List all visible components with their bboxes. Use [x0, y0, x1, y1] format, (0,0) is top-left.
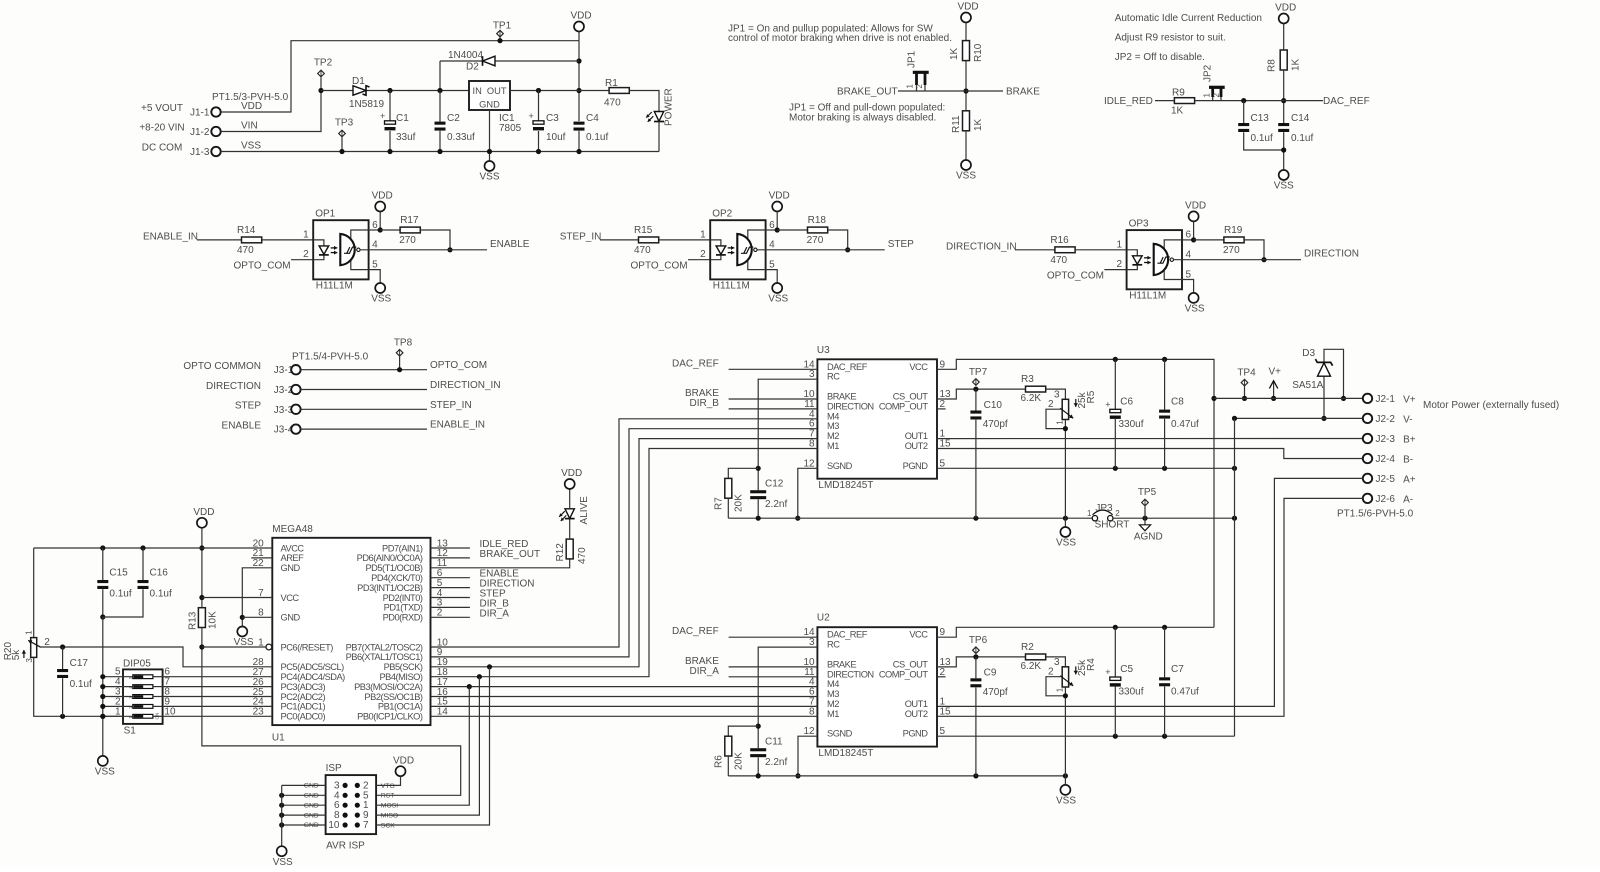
svg-text:PC4(ADC4/SDA): PC4(ADC4/SDA) — [281, 672, 346, 682]
svg-text:C9: C9 — [984, 668, 997, 679]
wire U2 VCC to V+ rail — [937, 627, 1214, 637]
capacitor C11 2.2nf — [750, 748, 766, 751]
resistor R18 270 — [777, 229, 807, 231]
wire R8 to DAC_REF node — [1283, 70, 1285, 124]
svg-text:R1: R1 — [605, 78, 618, 89]
svg-text:JP2 = Off to disable.: JP2 = Off to disable. — [1115, 52, 1205, 63]
capacitor C15 0.1uf — [102, 548, 104, 580]
svg-text:IN: IN — [473, 86, 482, 96]
wire IC1 GND to VSS — [489, 110, 491, 161]
svg-text:PC2(ADC2): PC2(ADC2) — [281, 692, 326, 702]
svg-text:OPTO COMMON: OPTO COMMON — [183, 361, 261, 372]
wire DIRECTION_IN — [301, 389, 427, 391]
svg-text:15: 15 — [940, 439, 952, 450]
svg-text:D2: D2 — [466, 62, 479, 73]
wire VDD top-left rail — [34, 547, 202, 549]
resistor R17 270 — [380, 229, 400, 231]
svg-text:C8: C8 — [1171, 397, 1184, 408]
svg-text:1: 1 — [1117, 239, 1123, 250]
svg-text:6.2K: 6.2K — [1021, 393, 1042, 404]
svg-text:VSS: VSS — [1274, 181, 1294, 192]
wire ground vertical left — [102, 617, 104, 756]
svg-text:J1-2: J1-2 — [190, 127, 210, 138]
svg-text:TP3: TP3 — [335, 118, 354, 129]
svg-text:2: 2 — [940, 399, 946, 410]
wire OP3 pin6 — [1182, 239, 1194, 241]
wire STEP_IN — [301, 408, 427, 410]
svg-text:5: 5 — [1186, 269, 1192, 280]
svg-text:J2-4: J2-4 — [1376, 454, 1396, 465]
svg-text:10uf: 10uf — [546, 132, 566, 143]
power symbol VSS ISP — [277, 846, 287, 856]
wire VCC pin7 — [202, 597, 272, 599]
resistor R3 6.2K — [1026, 386, 1046, 392]
svg-text:PC1(ADC1): PC1(ADC1) — [281, 702, 326, 712]
regulator IC1 7805 — [469, 81, 510, 110]
svg-text:OPTO_COM: OPTO_COM — [631, 261, 688, 272]
wire J1-1 VDD to top rail — [221, 41, 579, 112]
power symbol V+ — [1273, 382, 1275, 399]
resistor R13 10K — [198, 608, 205, 628]
svg-text:4: 4 — [1186, 250, 1192, 261]
svg-text:M2: M2 — [827, 431, 839, 441]
svg-text:R5: R5 — [1086, 390, 1097, 403]
svg-text:TP8: TP8 — [394, 337, 413, 348]
capacitor C2 0.33uf — [439, 91, 441, 122]
svg-text:M3: M3 — [827, 689, 839, 699]
svg-text:7805: 7805 — [499, 123, 522, 134]
wire VDD vertical to D2 and OUT — [578, 41, 580, 121]
svg-text:DAC_REF: DAC_REF — [827, 630, 868, 640]
svg-text:5: 5 — [940, 458, 946, 469]
svg-text:DC COM: DC COM — [142, 143, 183, 154]
svg-text:1: 1 — [700, 229, 706, 240]
svg-text:M4: M4 — [827, 679, 839, 689]
wire BRAKE to U2 pin10 — [729, 666, 818, 668]
jumper JP1 — [915, 72, 918, 86]
wire U3 M2 to MCU PB5 — [431, 439, 818, 667]
svg-text:10: 10 — [328, 820, 340, 831]
connector J2 pin J2-4 — [1363, 454, 1372, 463]
svg-text:470: 470 — [634, 245, 651, 256]
svg-text:DAC_REF: DAC_REF — [672, 626, 719, 637]
svg-text:VSS: VSS — [1056, 795, 1076, 806]
svg-text:OUT1: OUT1 — [905, 431, 928, 441]
svg-text:VTG: VTG — [381, 783, 395, 790]
wire AREF pin21 stub — [251, 557, 272, 559]
svg-text:0.47uf: 0.47uf — [1171, 419, 1199, 430]
svg-text:DIRECTION_IN: DIRECTION_IN — [430, 380, 501, 391]
capacitor C13 0.1uf — [1243, 101, 1245, 123]
svg-text:H11L1M: H11L1M — [713, 281, 750, 292]
svg-text:ALIVE: ALIVE — [579, 496, 590, 525]
power symbol VSS U3 — [1064, 518, 1066, 527]
svg-text:ENABLE: ENABLE — [490, 239, 530, 250]
svg-text:PB3(MOSI/OC2A): PB3(MOSI/OC2A) — [354, 682, 423, 692]
diode D2 1N4004 — [440, 60, 579, 62]
wire GND pin8 — [242, 616, 272, 618]
power symbol VSS JP2 — [1279, 170, 1289, 180]
jumper JP2 — [1211, 87, 1214, 98]
svg-text:CS_OUT: CS_OUT — [893, 659, 929, 669]
power symbol VSS OP2 — [772, 283, 782, 293]
driver U3 LMD18245T — [817, 359, 937, 478]
svg-text:JP2: JP2 — [1203, 64, 1214, 82]
svg-text:R17: R17 — [400, 215, 419, 226]
power symbol VDD ALIVE — [565, 479, 575, 489]
wire R2 to R4 — [1046, 657, 1066, 667]
wire DIP row 1 — [103, 715, 133, 717]
test point TP3 — [339, 130, 346, 137]
wire DIP row 4 — [103, 686, 133, 688]
wire OP1 pin4 output ENABLE — [360, 249, 487, 251]
wire U2 M1 from MCU PB0 — [431, 715, 818, 717]
ground symbol AGND — [1139, 525, 1150, 531]
capacitor C14 0.1uf — [1278, 123, 1289, 126]
wire U3 PGND — [937, 467, 1235, 469]
svg-text:PD2(INT0): PD2(INT0) — [383, 593, 423, 603]
svg-text:0.1uf: 0.1uf — [1251, 133, 1273, 144]
svg-text:OUT2: OUT2 — [905, 709, 928, 719]
svg-text:20K: 20K — [734, 752, 745, 770]
svg-text:LMD18245T: LMD18245T — [818, 748, 873, 759]
svg-text:R11: R11 — [951, 115, 962, 133]
svg-text:A+: A+ — [1403, 474, 1416, 485]
svg-text:C5: C5 — [1120, 664, 1133, 675]
power symbol VDD MCU — [197, 518, 207, 528]
svg-text:SGND: SGND — [827, 729, 853, 739]
svg-text:1: 1 — [906, 84, 915, 89]
wire U3 analog ground rail — [728, 517, 1092, 519]
svg-text:GND: GND — [281, 613, 301, 623]
svg-text:PGND: PGND — [903, 461, 929, 471]
connector J2 pin J2-3 — [1363, 434, 1372, 443]
svg-text:C10: C10 — [984, 400, 1003, 411]
svg-text:470: 470 — [1050, 255, 1067, 266]
svg-text:J2-3: J2-3 — [1376, 434, 1396, 445]
wire DAC_REF to U3 pin14 — [729, 368, 818, 370]
svg-text:2: 2 — [940, 667, 946, 678]
svg-text:BRAKE_OUT: BRAKE_OUT — [480, 549, 541, 560]
svg-text:DIP05: DIP05 — [123, 658, 151, 669]
svg-text:R12: R12 — [555, 543, 566, 562]
wire OP3 pin4 output DIRECTION — [1174, 259, 1302, 261]
svg-text:C13: C13 — [1251, 113, 1270, 124]
svg-text:470: 470 — [604, 98, 621, 109]
test point TP1 — [499, 37, 501, 41]
svg-text:H11L1M: H11L1M — [1129, 291, 1166, 302]
svg-text:6.2K: 6.2K — [1021, 661, 1042, 672]
svg-text:9: 9 — [940, 627, 946, 638]
wire U3 COMP_OUT stub — [937, 408, 946, 410]
svg-text:DIR_A: DIR_A — [480, 608, 510, 619]
svg-text:B+: B+ — [1403, 435, 1416, 446]
svg-text:STEP: STEP — [235, 401, 261, 412]
svg-text:3: 3 — [809, 637, 815, 648]
svg-text:R9: R9 — [1172, 88, 1185, 99]
svg-text:TP5: TP5 — [1138, 487, 1157, 498]
svg-text:SHORT: SHORT — [1095, 519, 1130, 530]
svg-text:1: 1 — [1087, 509, 1092, 518]
svg-text:RST: RST — [381, 793, 395, 800]
svg-text:R8: R8 — [1267, 59, 1278, 72]
ISP pin pads row 1 — [343, 783, 348, 788]
wire DIP row 2 — [103, 705, 133, 707]
wire V+ vertical to U2 — [1213, 398, 1215, 627]
svg-text:0.1uf: 0.1uf — [150, 589, 172, 600]
svg-text:330uf: 330uf — [1119, 419, 1144, 430]
wire left vertical to R20 — [33, 548, 35, 638]
svg-text:POWER: POWER — [664, 88, 675, 126]
ISP pin pads row 3 — [343, 803, 348, 808]
driver U2 LMD18245T — [817, 627, 937, 746]
svg-text:C11: C11 — [765, 737, 783, 748]
svg-text:PD7(AIN1): PD7(AIN1) — [382, 543, 423, 553]
svg-text:PB0(ICP1/CLKO): PB0(ICP1/CLKO) — [357, 712, 423, 722]
power symbol VDD OP2 — [772, 202, 782, 212]
svg-text:PD3(INT1/OC2B): PD3(INT1/OC2B) — [357, 583, 423, 593]
power symbol VSS left — [98, 756, 108, 766]
svg-text:VDD: VDD — [570, 11, 591, 22]
mcu right stub DIR_B — [431, 606, 470, 608]
power symbol VDD JP1 — [961, 13, 971, 23]
capacitor C5 330uf — [1114, 627, 1116, 677]
wire 7805 output VDD — [510, 90, 609, 92]
LED POWER — [654, 112, 663, 122]
node BRAKE — [966, 90, 1003, 92]
svg-text:PD0(RXD): PD0(RXD) — [383, 613, 423, 623]
wire V- vertical — [1234, 418, 1236, 736]
svg-text:C12: C12 — [765, 479, 784, 490]
svg-text:TP7: TP7 — [969, 367, 988, 378]
svg-text:C1: C1 — [396, 113, 409, 124]
svg-text:PC6(/RESET): PC6(/RESET) — [281, 642, 334, 652]
svg-text:3: 3 — [809, 369, 815, 380]
svg-text:D1: D1 — [352, 76, 365, 87]
wire BRAKE_OUT to jumper — [898, 90, 966, 92]
wire R18 to output — [828, 230, 848, 250]
svg-text:VSS: VSS — [371, 294, 391, 305]
svg-text:VSS: VSS — [1185, 303, 1205, 314]
svg-text:M4: M4 — [827, 411, 839, 421]
wire R9 to JP2 — [1195, 100, 1323, 102]
svg-text:GND: GND — [304, 802, 319, 809]
svg-text:TP6: TP6 — [969, 635, 988, 646]
svg-text:MISO: MISO — [381, 813, 398, 820]
wire OPTO_COM — [301, 369, 427, 371]
svg-text:R2: R2 — [1021, 642, 1034, 653]
wire ISP MOSI to PB3 — [376, 687, 469, 806]
svg-text:R4: R4 — [1086, 658, 1097, 671]
wire JP3 to V- vertical — [1113, 517, 1235, 519]
svg-text:R14: R14 — [237, 225, 256, 236]
svg-text:2: 2 — [1115, 509, 1120, 518]
svg-text:OPTO_COM: OPTO_COM — [234, 261, 291, 272]
wire J2-6 to U2 OUT2 — [937, 498, 1363, 716]
jumper JP3 SHORT — [1092, 516, 1097, 521]
test point TP4 — [1241, 379, 1248, 386]
svg-text:1N5819: 1N5819 — [349, 99, 384, 110]
mcu right stub ENABLE — [431, 577, 470, 579]
wire DIR_A to U2 pin11 — [729, 676, 818, 678]
svg-text:VIN: VIN — [241, 121, 258, 132]
svg-text:VSS: VSS — [241, 141, 261, 152]
svg-text:3: 3 — [1054, 390, 1060, 401]
svg-text:2.2nf: 2.2nf — [765, 757, 787, 768]
svg-text:12: 12 — [803, 458, 815, 469]
svg-text:Adjust R9 resistor to suit.: Adjust R9 resistor to suit. — [1115, 33, 1226, 44]
svg-text:J2-2: J2-2 — [1376, 414, 1396, 425]
svg-text:R16: R16 — [1050, 235, 1069, 246]
svg-text:Automatic Idle Current Reducti: Automatic Idle Current Reduction — [1115, 13, 1262, 24]
svg-text:DIRECTION: DIRECTION — [1304, 249, 1359, 260]
svg-text:470: 470 — [237, 245, 254, 256]
wire reset to pin1 bubble — [202, 646, 266, 648]
wire U2 M4 from MCU PB3 — [431, 686, 818, 688]
svg-text:R7: R7 — [714, 497, 725, 510]
wire R10 to BRAKE node — [965, 61, 967, 111]
svg-text:GND: GND — [281, 563, 301, 573]
wire IDLE_RED to R9 — [1155, 100, 1174, 102]
svg-text:J1-1: J1-1 — [190, 108, 210, 119]
svg-text:ENABLE_IN: ENABLE_IN — [430, 420, 485, 431]
svg-text:VDD: VDD — [193, 507, 214, 518]
wire R19 to output — [1244, 240, 1264, 260]
wire OP2 pin5 — [766, 270, 778, 283]
svg-text:J1-3: J1-3 — [190, 147, 210, 158]
svg-text:PC5(ADC5/SCL): PC5(ADC5/SCL) — [281, 662, 345, 672]
mcu U1 MEGA48 — [272, 538, 430, 725]
wire J2-2 V- row — [1235, 417, 1363, 419]
connector J2 pin J2-2 — [1363, 414, 1372, 423]
svg-text:COMP_OUT: COMP_OUT — [879, 401, 929, 411]
svg-text:V+: V+ — [1268, 367, 1281, 378]
svg-text:B-: B- — [1403, 455, 1413, 466]
optocoupler OP1 H11L1M — [313, 220, 368, 279]
svg-text:1: 1 — [1056, 687, 1065, 692]
svg-text:VSS: VSS — [479, 172, 499, 183]
resistor R16 470 — [1055, 247, 1075, 253]
svg-text:TP1: TP1 — [493, 21, 512, 32]
svg-text:OPTO_COM: OPTO_COM — [1047, 271, 1104, 282]
svg-text:V-: V- — [1403, 415, 1412, 426]
svg-text:AVCC: AVCC — [281, 543, 305, 553]
svg-text:J2-5: J2-5 — [1376, 474, 1396, 485]
svg-text:14: 14 — [437, 707, 449, 718]
wire ENABLE_IN — [301, 428, 427, 430]
svg-text:PC3(ADC3): PC3(ADC3) — [281, 682, 326, 692]
wire U2 CS_OUT — [937, 657, 1025, 667]
resistor R7 20K — [728, 468, 758, 478]
svg-text:OP2: OP2 — [712, 209, 732, 220]
wire U2 RC pin3 — [758, 647, 817, 748]
svg-text:Motor Power (externally fused): Motor Power (externally fused) — [1423, 400, 1559, 411]
LED ALIVE — [569, 519, 571, 540]
wire U2 M2 from MCU PB1 — [431, 705, 818, 707]
ISP pin pads row 5 — [343, 822, 348, 827]
svg-text:1: 1 — [303, 229, 309, 240]
svg-text:2: 2 — [1048, 399, 1054, 410]
svg-text:270: 270 — [807, 235, 824, 246]
ISP pin pads row 4 — [343, 813, 348, 818]
mcu right stub DIRECTION — [431, 587, 470, 589]
resistor R14 470 — [242, 237, 262, 243]
wire U3 M4 to MCU PB7 — [431, 419, 818, 647]
test point TP8 — [396, 350, 403, 357]
mcu right stub STEP — [431, 597, 470, 599]
svg-text:C3: C3 — [546, 113, 559, 124]
trimmer R4 25k — [1062, 667, 1068, 687]
diode D3 SA51A — [1324, 349, 1344, 398]
wire DAC_REF to U2 pin14 — [729, 636, 818, 638]
capacitor C6 330uf — [1114, 359, 1116, 409]
wire U2 SGND — [798, 736, 817, 776]
svg-text:0.1uf: 0.1uf — [70, 679, 92, 690]
wire U2 COMP_OUT stub — [937, 676, 946, 678]
svg-text:AREF: AREF — [281, 553, 305, 563]
ISP pin pads row 2 — [343, 793, 348, 798]
wire R11 to VSS — [965, 131, 967, 160]
svg-text:+: + — [529, 111, 534, 121]
svg-text:TP2: TP2 — [314, 58, 333, 69]
wire U3 M3 to MCU PB6 — [431, 429, 818, 657]
wire OP1 pin5 — [369, 270, 381, 283]
resistor R6 20K — [728, 726, 758, 736]
svg-text:R3: R3 — [1021, 374, 1034, 385]
capacitor C10 470pf — [975, 389, 977, 410]
svg-text:VDD: VDD — [241, 101, 262, 112]
svg-text:5: 5 — [940, 726, 946, 737]
svg-text:C14: C14 — [1291, 113, 1310, 124]
power symbol VDD ISP — [396, 766, 406, 776]
svg-text:VCC: VCC — [909, 630, 928, 640]
svg-text:2: 2 — [1212, 93, 1221, 98]
svg-text:OUT: OUT — [487, 86, 507, 96]
svg-text:PD4(XCK/T0): PD4(XCK/T0) — [371, 573, 423, 583]
capacitor C17 0.1uf — [62, 647, 64, 669]
power symbol VDD R8 — [1279, 14, 1289, 24]
svg-text:M2: M2 — [827, 699, 839, 709]
svg-text:330uf: 330uf — [1119, 687, 1144, 698]
wire DIP row 5 — [103, 676, 133, 678]
svg-text:270: 270 — [399, 235, 416, 246]
svg-text:2: 2 — [44, 637, 50, 648]
svg-text:R15: R15 — [634, 225, 653, 236]
svg-text:470pf: 470pf — [983, 687, 1008, 698]
diode D1 1N5819 — [321, 90, 469, 92]
svg-text:0.1uf: 0.1uf — [586, 132, 608, 143]
mcu right stub IDLE_RED — [431, 547, 470, 549]
svg-text:M3: M3 — [827, 421, 839, 431]
svg-text:GND: GND — [304, 822, 319, 829]
connector J2 pin J2-6 — [1363, 494, 1372, 503]
wire VDD vertical to R13 — [201, 528, 203, 608]
svg-text:J2-6: J2-6 — [1376, 494, 1396, 505]
wire U3 M1 to MCU PB4 — [431, 449, 818, 677]
svg-text:1: 1 — [25, 630, 34, 635]
svg-text:6: 6 — [769, 220, 775, 231]
wire R17 to output — [420, 230, 450, 250]
svg-text:GND: GND — [304, 783, 319, 790]
svg-text:R6: R6 — [714, 755, 725, 768]
svg-text:+: + — [1105, 667, 1110, 677]
wire U2 M3 from MCU PB2 — [431, 696, 818, 698]
svg-text:VSS: VSS — [273, 857, 293, 867]
test point TP5 — [1142, 499, 1149, 506]
resistor R2 6.2K — [1026, 654, 1046, 660]
wire U2 PGND — [937, 735, 1235, 737]
svg-text:VSS: VSS — [1056, 538, 1076, 549]
